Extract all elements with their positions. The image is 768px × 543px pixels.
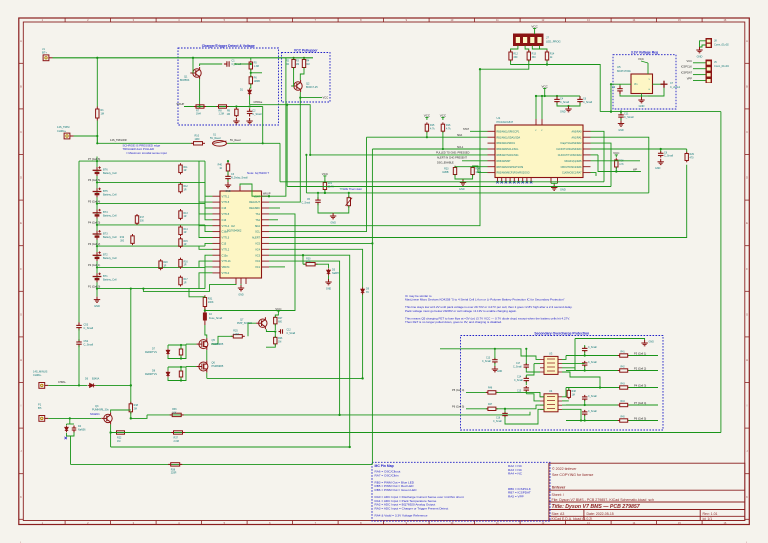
svg-text:RB1/AN11/SDA1/SDA: RB1/AN11/SDA1/SDA [497,136,521,139]
Q2 wires [291,68,293,87]
svg-text:File: Dyson V7 BMS - PCB 27985: File: Dyson V7 BMS - PCB 279857- KiCad S… [552,498,654,502]
svg-text:VCC: VCC [613,151,620,155]
battery cell BT5 [93,188,102,198]
svg-text:AN1/RA1: AN1/RA1 [572,136,583,139]
svg-text:RA3 = ADC Input = Charger or T: RA3 = ADC Input = Charger or Trigger Pre… [375,506,449,510]
charger/trigger detect box [178,48,279,125]
capacitor C9 reg input [617,86,623,94]
vcc label R28 [615,155,618,158]
svg-text:VCC: VCC [542,84,549,88]
rail 447 wire [111,446,350,448]
svg-text:1M: 1M [572,395,575,397]
resistor R23 pulldown [453,166,456,177]
svg-text:R31: R31 [208,298,213,301]
resistor R27 q7 [274,316,277,326]
svg-text:220R: 220R [171,472,177,475]
trigger row to detect riser [279,143,281,182]
capacitor C17 mid [524,363,530,369]
svg-text:Battery_Cell: Battery_Cell [103,172,117,175]
U2 bottom srp srn [143,284,236,291]
svg-text:KiCad E.D.A. kicad (6.0.2): KiCad E.D.A. kicad (6.0.2) [552,517,593,521]
detect row 154 long wire [310,154,487,156]
connector J5 ICSP [706,60,713,84]
svg-text:C15: C15 [517,390,522,392]
Q1 wires [192,58,194,73]
svg-text:C_Small: C_Small [84,343,94,346]
ic U2 BQ7694002 body [220,191,262,278]
ic U1 bottom pins [498,178,558,184]
vcc label q7 [277,311,280,314]
svg-text:MaxLinear Micro Devices KD4258: MaxLinear Micro Devices KD4258 “5 to 4 S… [405,298,565,302]
svg-text:PIC16LF1847: PIC16LF1847 [497,120,514,124]
svg-text:GND: GND [697,54,703,58]
svg-text:SCL1: SCL1 [457,146,464,149]
svg-text:C_Small: C_Small [252,113,262,116]
diode D6 [88,383,96,387]
resistor R35 gate [179,370,182,379]
svg-text:5V_Reed: 5V_Reed [230,139,241,142]
svg-text:P6 (Cell 5): P6 (Cell 5) [452,405,464,409]
svg-text:VPP: VPP [687,77,692,81]
svg-text:R42: R42 [621,367,626,369]
svg-text:VCC Pullupper: VCC Pullupper [294,48,318,52]
svg-text:1M: 1M [278,342,281,344]
sense row long wire [306,192,648,194]
svg-text:R41: R41 [621,352,626,354]
svg-text:CBOUT/OSC2/RA6: CBOUT/OSC2/RA6 [561,166,583,169]
CHRGe row riser to MCU detect row [250,105,311,155]
ic U2 bottom pins [236,278,246,284]
svg-text:RB3/AN9/MCP1FGA/RG2OSO: RB3/AN9/MCP1FGA/RG2OSO [497,172,530,175]
svg-text:PULLED TO GND: PRESSED: PULLED TO GND: PRESSED [436,152,470,155]
svg-text:SDA: SDA [457,134,462,137]
vcc label pullup A [425,117,428,120]
svg-text:VCC: VCC [531,24,538,28]
svg-text:U2: U2 [231,224,235,228]
vcc label thermistor [323,176,326,179]
svg-text:GND: GND [639,104,645,108]
wire cell tap to U2 pin [199,161,213,202]
gnd C11 [620,118,622,120]
svg-text:VCC: VCC [275,307,282,311]
svg-text:RB0/AN11/SRI/CCP1: RB0/AN11/SRI/CCP1 [497,130,520,133]
resistor R17 [135,214,138,225]
svg-text:C17: C17 [516,363,521,365]
resistor R9 pulldown [235,108,238,118]
svg-text:R20: R20 [163,262,168,264]
wire cell tap to U2 pin [205,161,213,196]
svg-text:2.0M: 2.0M [174,440,179,443]
svg-text:3V: 3V [366,291,369,294]
svg-text:tinfever: tinfever [552,486,566,490]
svg-text:C16a: C16a [222,230,229,234]
resistor R30 alert filter [304,263,318,266]
gate rail wire [207,377,363,379]
svg-text:ALERT IN CHG PRESENT: ALERT IN CHG PRESENT [437,156,467,159]
svg-text:GND: GND [330,222,336,225]
svg-text:GND: GND [497,371,502,373]
wire d6 to q3 column [96,384,131,386]
wire mcu r6 [591,160,641,162]
bt- row wire [48,417,101,419]
svg-text:R14: R14 [550,52,555,55]
sec vertical join right [574,339,576,371]
svg-text:10k Thermistor: 10k Thermistor [344,187,363,191]
wire cell tap to U2 pin [199,204,213,226]
sec right cap C21 [582,361,588,367]
wire mcu sda corner to U2 [367,136,386,138]
svg-text:J7: J7 [546,36,549,40]
svg-text:Secondary Overcharge Protectio: Secondary Overcharge Protection [534,331,589,335]
svg-text:CHRG-: CHRG- [33,373,42,377]
resistor R40 [226,162,229,173]
svg-text:R47: R47 [488,404,493,406]
svg-text:1.0M: 1.0M [233,333,238,336]
svg-text:1R: 1R [163,265,166,267]
wire led2 long left to U2 feed [480,61,529,70]
svg-text:CHRGe: CHRGe [254,101,263,104]
U5 wires [611,83,631,85]
svg-text:B: B [746,84,748,88]
detect row A wire [280,181,604,183]
svg-text:5V_Reed: 5V_Reed [210,137,221,140]
svg-text:R14: R14 [184,229,189,231]
svg-text:J1: J1 [42,47,45,51]
svg-text:R13: R13 [532,52,537,55]
wire cell tap to U2 pin [205,255,213,267]
chrg- row wire [48,384,87,386]
svg-text:C_Small: C_Small [287,333,296,335]
resistor R36 rail414 [170,413,184,416]
fuse node junction [204,309,206,311]
wire mcu pin1 row [470,130,488,132]
svg-text:RB6/AN5/MT: RB6/AN5/MT [497,160,512,163]
svg-text:U3: U3 [549,351,553,355]
wire cell tap to U2 pin [205,267,213,289]
svg-text:VCC: VCC [323,96,329,100]
pulldown gnd wires [455,175,463,180]
battery tap wire P4 (Cell 3) [97,224,205,226]
ic U4 body [544,394,558,412]
wire C52 to CHRG- row [78,329,80,341]
connector J3 charge positive [64,133,73,139]
resistor R3 pullup [302,58,305,70]
svg-text:SCL: SCL [255,231,260,234]
svg-text:P6 (Cell 5): P6 (Cell 5) [88,178,100,182]
svg-text:RA4 & Vadd = 3.3V Voltage Refe: RA4 & Vadd = 3.3V Voltage Reference [375,513,428,517]
wire gate drive to q5 [211,336,232,344]
svg-text:P2 (Cell 2): P2 (Cell 2) [634,367,646,371]
svg-text:CLKIN/OSC1/RA7: CLKIN/OSC1/RA7 [562,172,582,175]
svg-text:VTTL3: VTTL3 [222,236,230,240]
svg-text:GND: GND [326,287,332,290]
resistor R13 led [527,50,530,62]
wire mcu row8 to R24 [473,166,488,173]
svg-text:PSMN9R5: PSMN9R5 [212,365,224,368]
svg-text:P2 (Cell 1): P2 (Cell 1) [88,263,100,267]
svg-text:H: H [746,358,748,362]
svg-text:WP: WP [633,167,637,171]
svg-text:C_Small: C_Small [493,421,502,423]
resistor R26 q7 [274,336,277,346]
svg-text:RB4/AN8/SCL1/SCL: RB4/AN8/SCL1/SCL [497,148,520,151]
wire r21 top [324,179,326,183]
wire U2 alert long to R29 [269,165,687,238]
wire cell tap to U2 pin [199,273,213,289]
svg-text:Pack voltage must go below 29/: Pack voltage must go below 29/28V or cel… [405,309,517,313]
connector J2 charge negative [39,383,48,389]
sense row left riser [305,155,307,193]
svg-text:Note: bq76200 ?: Note: bq76200 ? [247,171,270,175]
svg-text:PUMH9RL,30u: PUMH9RL,30u [92,409,109,412]
battery cell BT2 [93,251,102,261]
svg-text:C_Small: C_Small [514,380,523,382]
wire U2 regout up to rail [269,58,286,196]
sec u4 left wires [526,394,540,401]
capacitor C5 sense filter [315,197,321,205]
mosfet Q5 charge [196,338,208,350]
svg-text:SDA: SDA [255,225,260,228]
U2 bottom gnd [240,284,242,285]
wire mcu scl row [372,148,487,150]
wire cell tap to U2 pin [199,182,213,214]
J5 wires [693,62,706,64]
vcc label pullup B [441,117,444,120]
resistor R7 bottom [194,105,206,108]
gnd mcu pulldowns [460,180,466,186]
svg-text:TS1: TS1 [255,213,260,216]
ic U3 body [544,356,558,374]
U1 gnd pins [551,182,558,184]
secondary overcharge protection box [461,336,664,431]
svg-text:C_Small: C_Small [513,367,522,369]
wire r30 left riser [303,263,305,265]
svg-text:P7 (Cell 6): P7 (Cell 6) [88,157,100,161]
ic U1 right pins [583,131,591,172]
ic U3 pins [540,359,562,372]
resistor Rb2 [179,182,182,193]
resistor R37 rail432 [171,431,185,434]
wire R1 to trigger row [96,121,98,144]
svg-text:C16: C16 [496,417,501,419]
wire cell tap to U2 pin [205,204,213,220]
svg-text:G: G [20,312,22,316]
svg-text:ALERT: ALERT [252,237,260,240]
Q2 emitter to VCC [300,92,322,98]
sec row P7 (Cell 4) [566,404,619,406]
svg-text:AN0/RA0: AN0/RA0 [572,130,583,133]
sec box gnd [641,340,647,346]
connector J7 LED_PROG [514,34,544,46]
svg-text:1M: 1M [101,113,104,116]
svg-text:1M4: 1M4 [196,113,201,116]
svg-text:Battery_Cell: Battery_Cell [103,236,117,239]
svg-text:REGSRC: REGSRC [249,207,260,210]
wire J3 to trigger row [74,136,98,143]
svg-text:C: C [20,130,22,134]
rail 111 wire [600,111,721,113]
tvs d8 [166,371,169,378]
capacitor C12 q7 [279,329,285,334]
svg-text:VCC: VCC [424,113,431,117]
svg-text:1M0B: 1M0B [254,80,261,83]
svg-text:NIGEN1: NIGEN1 [90,412,100,416]
wire U2 row to rail447 [269,255,350,447]
svg-text:NaMH: NaMH [332,272,339,275]
svg-text:PSMN9R5: PSMN9R5 [212,343,224,346]
sense row riser right [591,137,649,193]
resistor R19 [131,234,134,245]
svg-text:P5 (Cell 4): P5 (Cell 4) [452,388,464,392]
svg-text:Title: Dyson V7 BMS — PCB 2798: Title: Dyson V7 BMS — PCB 279857 [552,504,641,510]
battery tap wire P2 (Cell 1) [97,266,205,268]
capacitor C3 u2 top [225,173,231,181]
gnd d5 [328,276,330,279]
svg-text:VTTL5: VTTL5 [222,212,230,216]
resistor R14 led [545,50,548,62]
gnd R9 [233,118,239,124]
wire r18 bottom to bt- row [130,412,132,419]
gnd C8 [658,159,664,165]
wire cell tap to U2 pin [199,261,213,267]
wire U2 row to gate rail [269,249,363,378]
svg-text:Battery_Cell: Battery_Cell [103,193,117,196]
svg-text:R40: R40 [218,164,223,167]
wire pullups from rail [293,58,295,60]
capacitor C6 decoupling [577,96,583,104]
P1 tap extension to R31 [189,289,200,297]
svg-text:Then FET is no longer pulled d: Then FET is no longer pulled down, goes … [405,320,502,324]
svg-text:RA5 = VPP: RA5 = VPP [508,494,524,498]
svg-text:R44: R44 [621,401,626,403]
ic U1 PIC16LF1847 body [495,125,583,178]
svg-text:VC3: VC3 [255,254,260,257]
U2 ts stub [269,207,280,209]
svg-text:VCC: VCC [322,172,329,176]
vcc pullup box [282,53,331,103]
svg-text:Conn_01x02: Conn_01x02 [714,42,729,46]
mcu vcc rail wires [545,91,580,96]
svg-text:Charger/Trigger Detect & Volta: Charger/Trigger Detect & Voltage [202,44,255,48]
svg-text:R17: R17 [184,279,189,281]
resistor R24 pulldown [471,166,474,177]
svg-text:R16: R16 [184,261,189,263]
main positive rail wire [53,57,314,59]
svg-text:330: 330 [532,56,537,59]
svg-text:U4: U4 [549,389,553,393]
svg-text:VCC: VCC [638,57,644,61]
sec u3 left wire 2 [534,363,540,365]
battery stack gnd [94,297,100,303]
wire cell tap to U2 pin [205,243,213,246]
resistor Rb3 [179,209,182,220]
svg-text:C_Small: C_Small [560,101,570,104]
svg-text:GND: GND [560,110,566,113]
battery tap wire P7 (Cell 6) [97,160,205,162]
wire mcu r5 hook [591,154,599,156]
svg-text:GND: GND [649,340,655,343]
svg-text:C_Small: C_Small [588,362,597,364]
MC pin map notes box [372,462,550,521]
ic U2 top pin [239,186,241,191]
gnd u2 top [227,180,229,182]
resistor Rb6 [179,258,182,269]
ic U5 MCP1700 body [631,74,653,94]
svg-text:RA7 = OSC/Clkin: RA7 = OSC/Clkin [375,473,399,477]
resistor Rb4 [179,225,182,236]
gnd C2 [246,118,252,124]
sec right cap C22 [582,395,588,401]
svg-text:1M: 1M [227,113,230,116]
wire fuse to Q5 drain [205,325,207,338]
capacitor C4 decoupling [554,96,560,104]
svg-text:VC5: VC5 [255,243,260,246]
resistor R29 [686,149,688,153]
wire cell tap to U2 pin [205,225,213,232]
resistor R31 100K [203,295,206,308]
U5 gnd [638,97,644,103]
svg-text:MCLR/Vpp/RA5: MCLR/Vpp/RA5 [564,160,582,163]
resistor R21 thermistor divider [323,181,326,192]
svg-text:C_Small: C_Small [588,396,597,398]
svg-text:REGOUT: REGOUT [249,201,260,204]
svg-text:4.7k: 4.7k [430,128,435,131]
svg-text:1.2M: 1.2M [219,113,224,116]
svg-text:VTTL2: VTTL2 [222,247,230,251]
svg-text:R15: R15 [184,241,189,243]
svg-text:4.7k: 4.7k [446,128,451,131]
capacitor C13 [492,358,498,364]
svg-text:GND: GND [560,188,566,192]
vertical from P1 tap to Q3 area [130,289,132,404]
svg-text:A: A [20,39,22,43]
svg-text:D: D [20,176,22,180]
svg-text:P1 (Cell 0): P1 (Cell 0) [88,284,100,288]
svg-text:R29: R29 [690,153,695,156]
wire led3 down [546,61,548,65]
svg-text:RB5/AN7/SCK1/SS1: RB5/AN7/SCK1/SS1 [497,154,520,157]
svg-text:BQ7694002: BQ7694002 [227,228,242,232]
transistor Q2 [291,80,302,92]
svg-text:RA4 = NC: RA4 = NC [508,472,523,476]
svg-text:ICSPDAT: ICSPDAT [681,71,692,75]
resistor Rb1 [179,163,182,174]
capacitor C1 hpf [224,61,232,67]
vcc3 vertical [610,84,612,111]
svg-text:Fuse_Small: Fuse_Small [209,317,223,320]
battery cell BT6 [93,166,102,176]
wire r21 to sense row [324,190,326,193]
svg-text:B340A: B340A [92,377,100,380]
svg-text:P3 (Cell 2): P3 (Cell 2) [88,242,100,246]
svg-text:R43: R43 [621,384,626,386]
svg-text:WKUP: WKUP [263,193,271,196]
capacitor C53 [76,322,82,330]
svg-text:E: E [746,221,748,225]
svg-text:CLKOUT/T1OSO/RA4: CLKOUT/T1OSO/RA4 [558,154,582,157]
transistor Q7 pnp [256,317,267,329]
ic U1 top pins [536,119,542,125]
sec row P3 (Cell 1) [566,355,619,357]
battery cell BT3 [93,230,102,240]
sec right cap C23 [582,410,588,416]
wire U2 regsrc up to Q2 [269,98,300,203]
svg-text:1M0: 1M0 [195,138,200,141]
svg-text:U1: U1 [497,116,501,120]
svg-text:GND: GND [238,294,244,297]
resistor R5 divider top [249,60,252,70]
svg-text:4.7k: 4.7k [306,261,311,264]
